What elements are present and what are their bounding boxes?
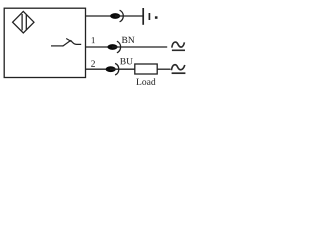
connector socket arc (wire 2) <box>115 63 119 75</box>
wire: connector to earth <box>115 15 143 17</box>
earth ground bar 1 <box>142 8 144 25</box>
BN label <box>122 37 135 43</box>
AC source symbol (wire 1) <box>172 42 185 48</box>
sensor enclosure box <box>4 8 85 77</box>
wire 1 from box <box>86 46 109 48</box>
switch contact left lead <box>51 45 63 47</box>
pin label 1 <box>92 37 95 43</box>
BU label <box>120 58 133 64</box>
wire 1 to AC source <box>112 46 167 48</box>
connector socket arc (top) <box>120 10 124 22</box>
earth ground bar 2 <box>148 13 150 20</box>
proximity sensor symbol (diamond) <box>13 11 34 33</box>
load resistor <box>135 64 157 74</box>
sensor symbol bar left <box>21 14 23 30</box>
wire 2 from box <box>86 68 107 70</box>
sensor symbol bar right <box>25 15 27 30</box>
switch lever tick <box>66 39 71 42</box>
connector pin (top) <box>110 13 120 19</box>
connector pin (wire 2) <box>106 66 116 72</box>
connector pin (wire 1) <box>107 44 117 50</box>
connector socket arc (wire 1) <box>117 41 121 53</box>
wire: box top to connector <box>86 15 111 17</box>
wire: load to AC source <box>157 68 170 70</box>
Load value label <box>136 78 155 85</box>
wire 2 to load <box>110 68 135 70</box>
switch right lead <box>71 41 81 45</box>
switch lever <box>63 40 71 46</box>
earth ground bar 3 (dot) <box>155 16 158 19</box>
AC source symbol (wire 2) <box>171 65 184 71</box>
pin label 2 <box>91 60 95 66</box>
